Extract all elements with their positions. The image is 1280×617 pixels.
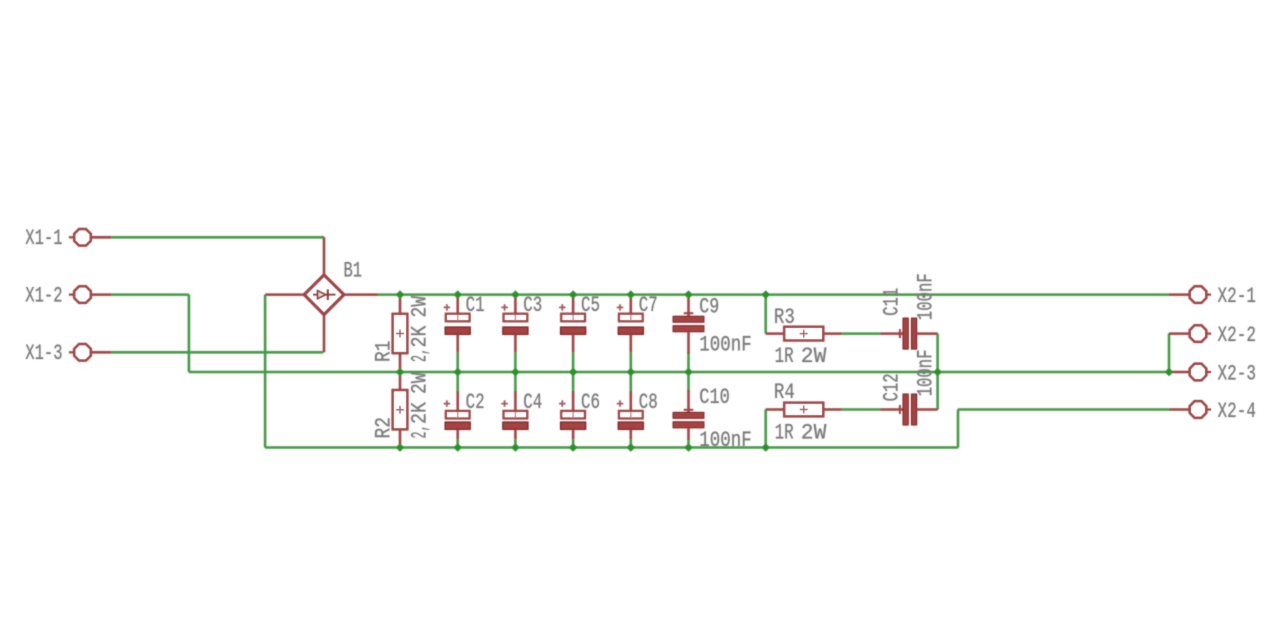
svg-text:C12: C12 [880,373,905,401]
svg-text:X2-3: X2-3 [1218,361,1257,386]
svg-text:2W: 2W [407,372,432,394]
svg-text:C5: C5 [581,293,600,318]
svg-text:2W: 2W [801,344,827,369]
svg-text:X1-3: X1-3 [25,341,62,366]
svg-text:2,: 2, [407,348,432,362]
svg-text:C10: C10 [699,385,730,410]
svg-text:1R: 1R [775,420,794,445]
svg-text:C3: C3 [523,293,542,318]
svg-text:C2: C2 [466,390,485,415]
svg-text:X1-1: X1-1 [25,226,62,251]
svg-text:C9: C9 [699,294,719,319]
svg-text:C1: C1 [466,293,485,318]
svg-text:C4: C4 [523,390,542,415]
svg-text:100nF: 100nF [914,349,939,396]
svg-text:100nF: 100nF [914,273,939,320]
svg-text:C8: C8 [639,390,658,415]
svg-text:100nF: 100nF [699,428,751,453]
svg-text:X1-2: X1-2 [25,284,62,309]
svg-text:C7: C7 [639,293,658,318]
svg-text:C6: C6 [581,390,600,415]
svg-text:X2-4: X2-4 [1218,399,1257,424]
svg-text:2W: 2W [407,295,432,317]
svg-text:X2-1: X2-1 [1218,284,1257,309]
svg-text:C11: C11 [880,288,905,316]
svg-text:2W: 2W [801,420,827,445]
svg-text:100nF: 100nF [699,333,751,358]
svg-text:B1: B1 [344,259,363,284]
svg-text:R4: R4 [774,380,795,405]
svg-text:2K: 2K [407,325,432,348]
svg-text:1R: 1R [775,344,794,369]
svg-text:2K: 2K [407,401,432,424]
svg-text:X2-2: X2-2 [1218,323,1257,348]
svg-text:R3: R3 [774,305,795,330]
svg-text:R2: R2 [372,417,397,438]
svg-text:R1: R1 [372,341,397,362]
svg-text:2,: 2, [407,425,432,439]
